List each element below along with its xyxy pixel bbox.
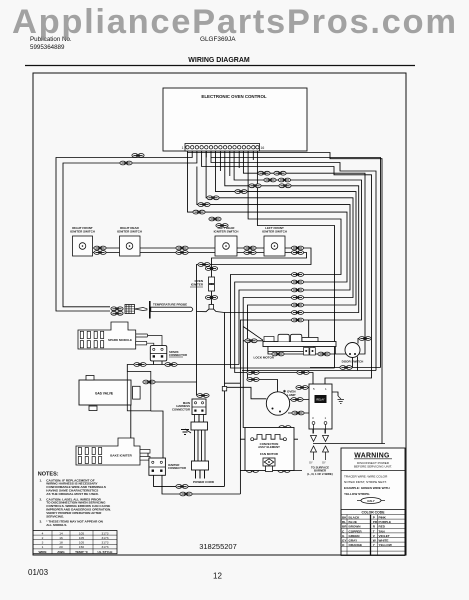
svg-text:BROWN: BROWN (349, 525, 362, 529)
wire: valve right bowtie wire (151, 381, 197, 383)
svg-text:VIOLET: VIOLET (379, 534, 390, 538)
power cord harness (172, 394, 215, 484)
lock assembly (254, 334, 337, 359)
warning / tracer / color code (341, 448, 405, 555)
svg-text:20: 20 (59, 545, 63, 549)
igniter switch row (73, 236, 286, 256)
connector J27 at (297.5,320) (291, 318, 303, 322)
svg-text:105: 105 (79, 541, 84, 545)
arrows below (314, 425, 326, 434)
node B junction square and wire to oven lamp (225, 383, 267, 399)
lock step feed branch (308, 320, 310, 338)
svg-text:COLOR CODE: COLOR CODE (362, 511, 386, 515)
svg-text:3.: 3. (40, 519, 43, 523)
svg-text:IGNITER SWITCH: IGNITER SWITCH (214, 230, 239, 234)
svg-text:LOCK MOTOR: LOCK MOTOR (254, 356, 275, 360)
wire: under-strip 157.5 to door loop (206, 151, 380, 368)
connector J30 at (171,364.5) (165, 363, 177, 367)
svg-text:BEFORE SERVICING UNIT.: BEFORE SERVICING UNIT. (354, 465, 392, 469)
ground symbol (relay) (338, 396, 341, 399)
svg-text:RED: RED (379, 525, 386, 529)
svg-text:ASSY ELEMENT: ASSY ELEMENT (258, 445, 280, 449)
connector J7 at (255,185.8) (249, 184, 261, 188)
wire: power cord drop (198, 415, 200, 423)
connector J43 at (298,413) (292, 411, 304, 415)
connector J1 at (138,155.4) (132, 154, 144, 158)
svg-text:1: 1 (182, 146, 184, 150)
connector J12 at (199,212.1) (193, 210, 205, 214)
notes (38, 472, 111, 527)
wire: 197.8 to row 297.5 / lock diagonal (206, 151, 353, 428)
connector J39 at (253,379.5) (247, 378, 259, 382)
svg-text:YELLOW STRIPE.: YELLOW STRIPE. (344, 492, 370, 496)
connector J9 at (241,191.6) (235, 190, 247, 194)
connector J2 at (126,163) (120, 161, 132, 165)
svg-text:BLACK: BLACK (349, 516, 361, 520)
svg-text:3173: 3173 (102, 531, 109, 535)
connector J15 at (100,248) (94, 246, 106, 254)
svg-text:NOTES:: NOTES: (38, 472, 59, 478)
svg-text:ORANGE: ORANGE (349, 543, 363, 547)
bake igniter (76, 438, 150, 465)
connector J32 at (149,382) (143, 380, 155, 384)
wire: under-strip top line to warning column (188, 151, 383, 444)
left rear igniter switch (215, 236, 237, 256)
svg-text:BAKE IGNITER: BAKE IGNITER (110, 454, 132, 458)
connector J16 at (182,248) (176, 246, 188, 254)
svg-text:SPARK MODULE: SPARK MODULE (108, 338, 132, 342)
svg-text:IGNITER SWITCH: IGNITER SWITCH (262, 230, 287, 234)
connector J10 at (213,197.8) (207, 196, 219, 200)
wire: 180 to row 320 / convection + igniter return column (234, 151, 361, 494)
svg-text:1: 1 (42, 545, 44, 549)
door switch (342, 343, 364, 364)
svg-text:IGNITER: IGNITER (191, 283, 204, 287)
svg-text:BLUE: BLUE (349, 520, 357, 524)
spark connector (150, 346, 187, 361)
gas valve (79, 371, 151, 410)
svg-text:CONNECTOR: CONNECTOR (169, 353, 187, 357)
svg-text:W: W (373, 539, 376, 543)
svg-text:3173: 3173 (102, 545, 109, 549)
svg-text:2.: 2. (40, 497, 43, 501)
connector J18 at (297.5,248) (291, 246, 303, 254)
svg-text:GY: GY (322, 461, 326, 465)
connector J22 at (297.5,282) (291, 280, 303, 284)
svg-text:16: 16 (261, 146, 265, 150)
svg-text:WIRE: WIRE (38, 550, 46, 554)
svg-text:GN-Y: GN-Y (367, 499, 375, 503)
connector J35 at (324,354) (318, 352, 330, 356)
svg-text:BK: BK (342, 516, 347, 520)
svg-text:WHITE: WHITE (379, 539, 389, 543)
connector J41 at (302,387.5) (296, 386, 308, 390)
svg-text:150: 150 (79, 545, 84, 549)
connector J29 at (117,308.8) (111, 307, 123, 315)
svg-text:AppliancePartsPros.com: AppliancePartsPros.com (12, 3, 456, 41)
svg-text:T: T (373, 529, 375, 533)
wire: 204.6 to row 290 (197, 167, 350, 365)
svg-text:P: P (373, 516, 375, 520)
connector J25 at (297.5,305) (291, 303, 303, 307)
relay board (307, 384, 344, 476)
svg-text:WIRING DIAGRAM: WIRING DIAGRAM (188, 57, 250, 64)
connector J34 at (278,354) (272, 352, 284, 356)
wire: 191.6 to row 305 / lamp top feed (216, 151, 357, 395)
connector J40 at (310,375.5) (297, 371, 309, 375)
outer frame (33, 73, 406, 555)
svg-text:POWER CORD: POWER CORD (193, 480, 215, 484)
svg-text:IGNITER SWITCH: IGNITER SWITCH (117, 230, 142, 234)
connector J42 at (297,399.5) (291, 398, 303, 402)
svg-text:GY: GY (309, 461, 313, 465)
svg-text:4: 4 (42, 531, 44, 535)
igniter connector (149, 458, 186, 475)
svg-text:IGNITER SWITCH: IGNITER SWITCH (70, 230, 95, 234)
connector J3 at (264,173.2) (258, 171, 270, 175)
wire: switch row bus (93, 248, 264, 253)
connector J11 at (204,204.6) (198, 203, 210, 207)
connector J37 at (346,367.5) (340, 366, 352, 370)
connector J38 at (253,372.5) (247, 371, 259, 375)
svg-text:105: 105 (79, 531, 84, 535)
spark module (78, 322, 162, 349)
svg-text:PURPLE: PURPLE (379, 520, 392, 524)
svg-text:NOTED FIRST, STRIPE NEXT.: NOTED FIRST, STRIPE NEXT. (344, 480, 387, 484)
ground symbol (power cord) (185, 429, 191, 433)
left front igniter switch (264, 236, 285, 256)
svg-text:DOOR SWITCH: DOOR SWITCH (342, 360, 364, 364)
connector J13 at (215,219) (209, 217, 221, 221)
svg-text:1.: 1. (40, 478, 43, 482)
svg-text:3173: 3173 (102, 536, 109, 540)
svg-text:105: 105 (79, 536, 84, 540)
wire gauge table (33, 531, 117, 555)
svg-text:12: 12 (213, 572, 222, 581)
svg-text:COPPER: COPPER (349, 529, 363, 533)
door switch loop (310, 367, 381, 369)
svg-text:ELECTRONIC OVEN CONTROL: ELECTRONIC OVEN CONTROL (201, 94, 266, 99)
short stubs from remaining terminals (220, 151, 253, 176)
lock bottom row (268, 347, 304, 355)
svg-text:CONNECTOR: CONNECTOR (172, 407, 190, 411)
svg-text:GAS VALVE: GAS VALVE (95, 392, 113, 396)
wire: left inner loop to temp probe (63, 151, 197, 307)
svg-text:14: 14 (59, 531, 63, 535)
connector J31 at (140,364.5) (134, 363, 146, 367)
svg-text:SERVICING.: SERVICING. (46, 514, 64, 518)
svg-text:PINK: PINK (379, 516, 387, 520)
connector J19 at (204,264.5) (198, 263, 210, 267)
wire: 166.5 to relay top-right (202, 151, 372, 384)
connector J8 at (285,185.8) (279, 184, 291, 188)
svg-text:TEMPERATURE PROBE: TEMPERATURE PROBE (153, 303, 187, 307)
wire: LF switch returns (197, 248, 312, 396)
wire: left outer loop to temp probe (56, 151, 192, 311)
oven lamp (266, 390, 295, 416)
svg-text:✱: ✱ (283, 390, 286, 394)
svg-text:AS THE ORIGINAL MUST BE USED.: AS THE ORIGINAL MUST BE USED. (46, 492, 99, 496)
connector J14 at (222,225.5) (216, 224, 228, 228)
connector J23 at (297.5,290) (291, 288, 303, 292)
ELECTRONIC OVEN CONTROL box (163, 88, 307, 151)
connector J28 at (211.5,297.5) (205, 296, 217, 300)
connector J36 at (365,338.5) (359, 337, 371, 341)
wire: node Y legs (197, 309, 225, 313)
connector J44 at (285,427.5) (279, 426, 291, 430)
svg-text:FAN MOTOR: FAN MOTOR (260, 452, 279, 456)
connector J17 at (250,248) (244, 246, 256, 254)
wire: 212.1 to row 282 / relay top-left feed (188, 153, 348, 385)
svg-text:RELAY: RELAY (316, 398, 325, 402)
connector J24 at (297.5,297.5) (291, 296, 303, 300)
svg-text:(L, N, 1 OF 2-WIRE): (L, N, 1 OF 2-WIRE) (307, 472, 333, 476)
relay right ground wire (332, 392, 338, 396)
svg-text:BL: BL (342, 520, 346, 524)
connector J33 at (251,340.8) (245, 339, 257, 343)
wire: 162.5 to long 370.5 line (211, 151, 376, 371)
temperature probe (125, 301, 193, 319)
svg-text:TRACER WIRE: WIRE COLOR: TRACER WIRE: WIRE COLOR (344, 475, 388, 479)
connector J21 at (297.5,274.5) (291, 273, 303, 277)
wire: 173.2 to lock row (243, 151, 365, 354)
svg-text:LAMP: LAMP (287, 393, 296, 397)
svg-text:ALL MODELS.: ALL MODELS. (46, 523, 67, 527)
wire: igniter connector returns (154, 475, 225, 486)
lamp right wires (290, 399, 309, 401)
bowties on wires (94, 154, 371, 496)
svg-text:WARNING: WARNING (354, 452, 389, 459)
svg-text:GRAY: GRAY (349, 539, 359, 543)
svg-text:UL STYLE: UL STYLE (98, 550, 113, 554)
convection stubs (240, 438, 298, 440)
connector J6 at (284.5,180) (278, 178, 290, 182)
wire: 225.5 inner (257, 151, 334, 368)
wire: bake igniter top (131, 405, 163, 458)
connector J45 at (252.5,470.5) (246, 469, 258, 473)
svg-text:01/03: 01/03 (28, 568, 49, 577)
svg-text:3173: 3173 (102, 541, 109, 545)
svg-text:3: 3 (42, 541, 44, 545)
right front igniter switch (73, 236, 93, 256)
connector J4 at (280,173.2) (274, 171, 286, 175)
svg-text:TEMP °C: TEMP °C (75, 550, 89, 554)
right rear igniter switch (120, 236, 141, 256)
connector J20 at (211.5,268.5) (205, 267, 217, 271)
svg-text:318255207: 318255207 (199, 542, 237, 551)
relay pins left wire (296, 387, 309, 389)
connector J5 at (270,180) (264, 178, 276, 182)
wire: spark conn lines / valve bus (127, 365, 239, 372)
wire: 219 to row 274.5 (231, 151, 342, 368)
svg-text:EXAMPLE: GREEN WIRE WITH: EXAMPLE: GREEN WIRE WITH (344, 486, 390, 490)
door top bowtie branch (358, 339, 372, 344)
oven igniter column (190, 277, 215, 309)
svg-text:5995364889: 5995364889 (30, 44, 65, 51)
svg-text:18: 18 (59, 541, 63, 545)
relay bottom to warning wire (313, 429, 385, 444)
svg-text:YELLOW: YELLOW (379, 543, 392, 547)
convection assembly (245, 428, 294, 472)
svg-text:TAN: TAN (379, 529, 386, 533)
svg-text:16: 16 (59, 536, 63, 540)
connector J48 at (186,494) (180, 492, 192, 496)
svg-text:CONNECTOR: CONNECTOR (168, 466, 186, 470)
wire: 185.8 to row 312.5 / node column (225, 151, 359, 486)
svg-text:PR: PR (373, 520, 378, 524)
svg-text:2: 2 (42, 536, 44, 540)
connector J26 at (297.5,312.5) (291, 311, 303, 315)
svg-text:AWG: AWG (57, 550, 65, 554)
svg-text:BR: BR (342, 525, 347, 529)
connector J47 at (182,486.4) (176, 485, 188, 489)
connector J46 at (284,470.5) (278, 469, 290, 473)
svg-text:GREEN: GREEN (349, 534, 361, 538)
